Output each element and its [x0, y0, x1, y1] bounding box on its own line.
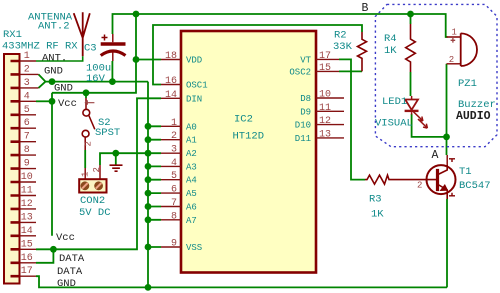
svg-text:1: 1: [171, 118, 177, 129]
svg-text:11: 11: [21, 186, 33, 197]
svg-text:12: 12: [21, 199, 33, 210]
svg-text:SPST: SPST: [95, 127, 120, 139]
svg-text:16: 16: [21, 253, 33, 264]
svg-text:1: 1: [24, 51, 30, 62]
node bus A4: [145, 176, 152, 183]
wire VDD drop: [52, 14, 136, 93]
svg-text:10: 10: [21, 172, 33, 183]
IC2 right pin lines: [316, 59, 344, 137]
svg-text:D9: D9: [300, 107, 311, 117]
svg-text:C3: C3: [84, 43, 97, 55]
IC2 left pin names: [186, 56, 208, 254]
svg-text:33K: 33K: [333, 41, 353, 53]
svg-text:3: 3: [171, 145, 177, 156]
svg-text:IC2: IC2: [234, 114, 253, 126]
pin stubs CON2: [85, 165, 100, 179]
svg-text:5V DC: 5V DC: [79, 207, 111, 219]
wire pin3 diagonal: [39, 82, 46, 88]
node bus A0: [145, 123, 152, 130]
svg-text:4: 4: [171, 158, 177, 169]
svg-text:D11: D11: [295, 134, 311, 144]
node top rail / R4: [407, 11, 414, 18]
svg-text:1K: 1K: [371, 209, 384, 221]
svg-text:VDD: VDD: [186, 56, 202, 66]
transistor T1: [414, 155, 456, 199]
svg-text:2: 2: [84, 141, 94, 146]
connector RX1 pin lines: [20, 61, 39, 276]
svg-text:4: 4: [24, 91, 30, 102]
wire DIN vertical: [53, 98, 161, 249]
svg-text:ANT.: ANT.: [42, 53, 67, 65]
svg-text:VT: VT: [300, 55, 311, 65]
svg-text:OSC2: OSC2: [289, 67, 311, 77]
svg-text:DATA: DATA: [59, 253, 85, 265]
antenna ANT2: [74, 12, 90, 56]
switch S2: [82, 98, 95, 150]
IC2 right pin numbers: [319, 51, 331, 140]
node bus A3: [145, 163, 152, 170]
svg-text:A5: A5: [186, 189, 197, 199]
svg-text:Vcc: Vcc: [58, 98, 77, 110]
node S2 Vcc: [83, 89, 90, 96]
node bus A7: [145, 216, 152, 223]
svg-text:7: 7: [24, 132, 30, 143]
wire R4 to LED: [410, 72, 412, 96]
svg-text:VSS: VSS: [186, 243, 202, 253]
resistor R3: [365, 175, 414, 184]
node bus bottom: [145, 284, 152, 291]
wire OSC2 to R2 bottom: [339, 70, 362, 72]
resistor R4: [406, 24, 416, 72]
svg-text:BC547: BC547: [459, 180, 491, 192]
svg-text:A3: A3: [186, 162, 197, 172]
resistor R2: [358, 32, 367, 71]
svg-text:R3: R3: [369, 194, 382, 206]
wire DATA pin16 up: [36, 249, 53, 262]
buzzer plus: [451, 38, 456, 43]
node bus A1: [145, 136, 152, 143]
svg-text:D10: D10: [295, 121, 311, 131]
svg-text:D8: D8: [300, 94, 311, 104]
wire top Vcc rail: [113, 14, 448, 37]
connector CON2: [79, 165, 106, 193]
wire R4 top stub: [410, 14, 412, 24]
svg-text:16V: 16V: [86, 73, 106, 85]
node bus A5: [145, 190, 152, 197]
svg-text:CON2: CON2: [80, 195, 105, 207]
wire LED cathode to node: [412, 114, 447, 137]
svg-text:3: 3: [24, 78, 30, 89]
svg-text:A2: A2: [186, 149, 197, 159]
svg-text:8: 8: [24, 145, 30, 156]
svg-text:A: A: [432, 149, 439, 162]
node C3 minus: [109, 78, 116, 85]
svg-text:8: 8: [171, 211, 177, 222]
svg-text:DATA: DATA: [57, 266, 83, 278]
svg-text:A1: A1: [186, 136, 197, 146]
wires layer: [36, 14, 448, 287]
svg-text:HT12D: HT12D: [233, 130, 265, 142]
wire Vcc vertical to pin14: [51, 93, 53, 236]
wire emitter to bottom rail: [446, 199, 448, 287]
svg-text:A7: A7: [186, 216, 197, 226]
IC2 left pin lines: [161, 60, 181, 248]
svg-text:GND: GND: [44, 66, 63, 78]
svg-text:17: 17: [319, 51, 331, 62]
wire DATA pin15: [36, 248, 53, 250]
node DATA join: [50, 246, 57, 253]
node GND pins 2-3: [49, 78, 56, 85]
svg-text:R2: R2: [334, 30, 347, 42]
svg-text:R4: R4: [384, 33, 397, 45]
wire pin4 Vcc stub: [36, 100, 52, 102]
svg-text:1K: 1K: [384, 45, 397, 57]
wire A-pin stubs: [148, 126, 161, 247]
node pin4 Vcc: [49, 98, 56, 105]
ground: [110, 165, 123, 171]
svg-text:ANT.2: ANT.2: [38, 21, 70, 33]
svg-text:14: 14: [165, 90, 177, 101]
svg-text:2: 2: [171, 131, 177, 142]
LED LED1: [405, 96, 428, 128]
node top rail / VDD: [133, 11, 140, 18]
svg-text:2: 2: [24, 64, 30, 75]
IC2 left pin numbers: [165, 51, 177, 250]
wire GND bus vertical: [147, 82, 149, 288]
svg-text:6: 6: [24, 118, 30, 129]
svg-text:Vcc: Vcc: [56, 232, 75, 244]
svg-text:A4: A4: [186, 176, 197, 186]
svg-text:9: 9: [24, 159, 30, 170]
svg-text:433MHZ RF RX: 433MHZ RF RX: [2, 41, 78, 53]
wire S2 to CON2 middle: [84, 150, 86, 168]
wire ground symbol stub: [115, 153, 117, 164]
svg-text:DIN: DIN: [186, 94, 202, 104]
wire buzzer pin2 down to node and collector: [446, 64, 448, 155]
svg-text:A0: A0: [186, 122, 197, 132]
buzzer PZ1: [447, 33, 478, 66]
node LED buzzer collector: [443, 134, 450, 141]
svg-text:12: 12: [319, 116, 331, 127]
svg-text:2: 2: [417, 181, 422, 191]
svg-text:LED1: LED1: [382, 96, 407, 108]
svg-text:13: 13: [21, 212, 33, 223]
node ground symbol tap: [112, 150, 119, 157]
svg-text:5: 5: [171, 171, 177, 182]
svg-text:11: 11: [319, 103, 331, 114]
connector RX1 pin numbers: [21, 51, 33, 277]
connector RX1 pin pads: [11, 61, 20, 276]
svg-text:18: 18: [165, 51, 177, 62]
svg-text:1: 1: [452, 28, 457, 38]
wire OSC1 loop to R2 top: [153, 25, 362, 85]
svg-text:16: 16: [165, 76, 177, 87]
svg-text:7: 7: [171, 198, 177, 209]
svg-text:15: 15: [21, 239, 33, 250]
connector RX1 body: [4, 54, 20, 284]
wire S2 top stub: [85, 93, 87, 98]
svg-text:13: 13: [319, 129, 331, 140]
IC2 right pin names: [289, 55, 311, 143]
wire C3 bottom drop: [111, 61, 113, 82]
wire GND rail from pins 2,3: [39, 74, 149, 81]
op IC2 body: [181, 31, 316, 273]
node bus A2: [145, 150, 152, 157]
svg-text:RX1: RX1: [3, 29, 22, 41]
svg-text:14: 14: [21, 226, 33, 237]
svg-text:GND: GND: [57, 278, 76, 290]
wire VDD pin stub: [136, 59, 161, 61]
svg-text:PZ1: PZ1: [458, 78, 477, 90]
svg-text:GND: GND: [54, 83, 73, 95]
node bus VSS: [145, 244, 152, 251]
svg-text:VISUAL: VISUAL: [375, 118, 413, 130]
svg-text:6: 6: [171, 185, 177, 196]
wire CON2 pin2 to GND row: [100, 153, 148, 165]
S2 pin number 1: [85, 100, 95, 105]
capacitor C3: [101, 34, 126, 61]
wire bottom GND rail: [36, 276, 447, 287]
wire VT to R3: [339, 59, 365, 179]
svg-text:5: 5: [24, 105, 30, 116]
svg-text:2: 2: [92, 167, 102, 172]
svg-text:10: 10: [319, 90, 331, 101]
svg-text:15: 15: [319, 63, 331, 74]
svg-text:17: 17: [21, 266, 33, 277]
node bus A6: [145, 203, 152, 210]
svg-text:B: B: [362, 2, 369, 15]
svg-text:9: 9: [171, 239, 177, 250]
svg-text:1: 1: [81, 172, 91, 177]
svg-text:OSC1: OSC1: [186, 81, 208, 91]
dashed box audio section: [375, 4, 497, 146]
svg-text:2: 2: [449, 55, 454, 65]
svg-text:T1: T1: [459, 166, 472, 178]
svg-text:A6: A6: [186, 203, 197, 213]
svg-text:AUDIO: AUDIO: [456, 110, 491, 123]
node VDD pin18: [133, 56, 140, 63]
wire antenna to pin1: [36, 56, 83, 61]
